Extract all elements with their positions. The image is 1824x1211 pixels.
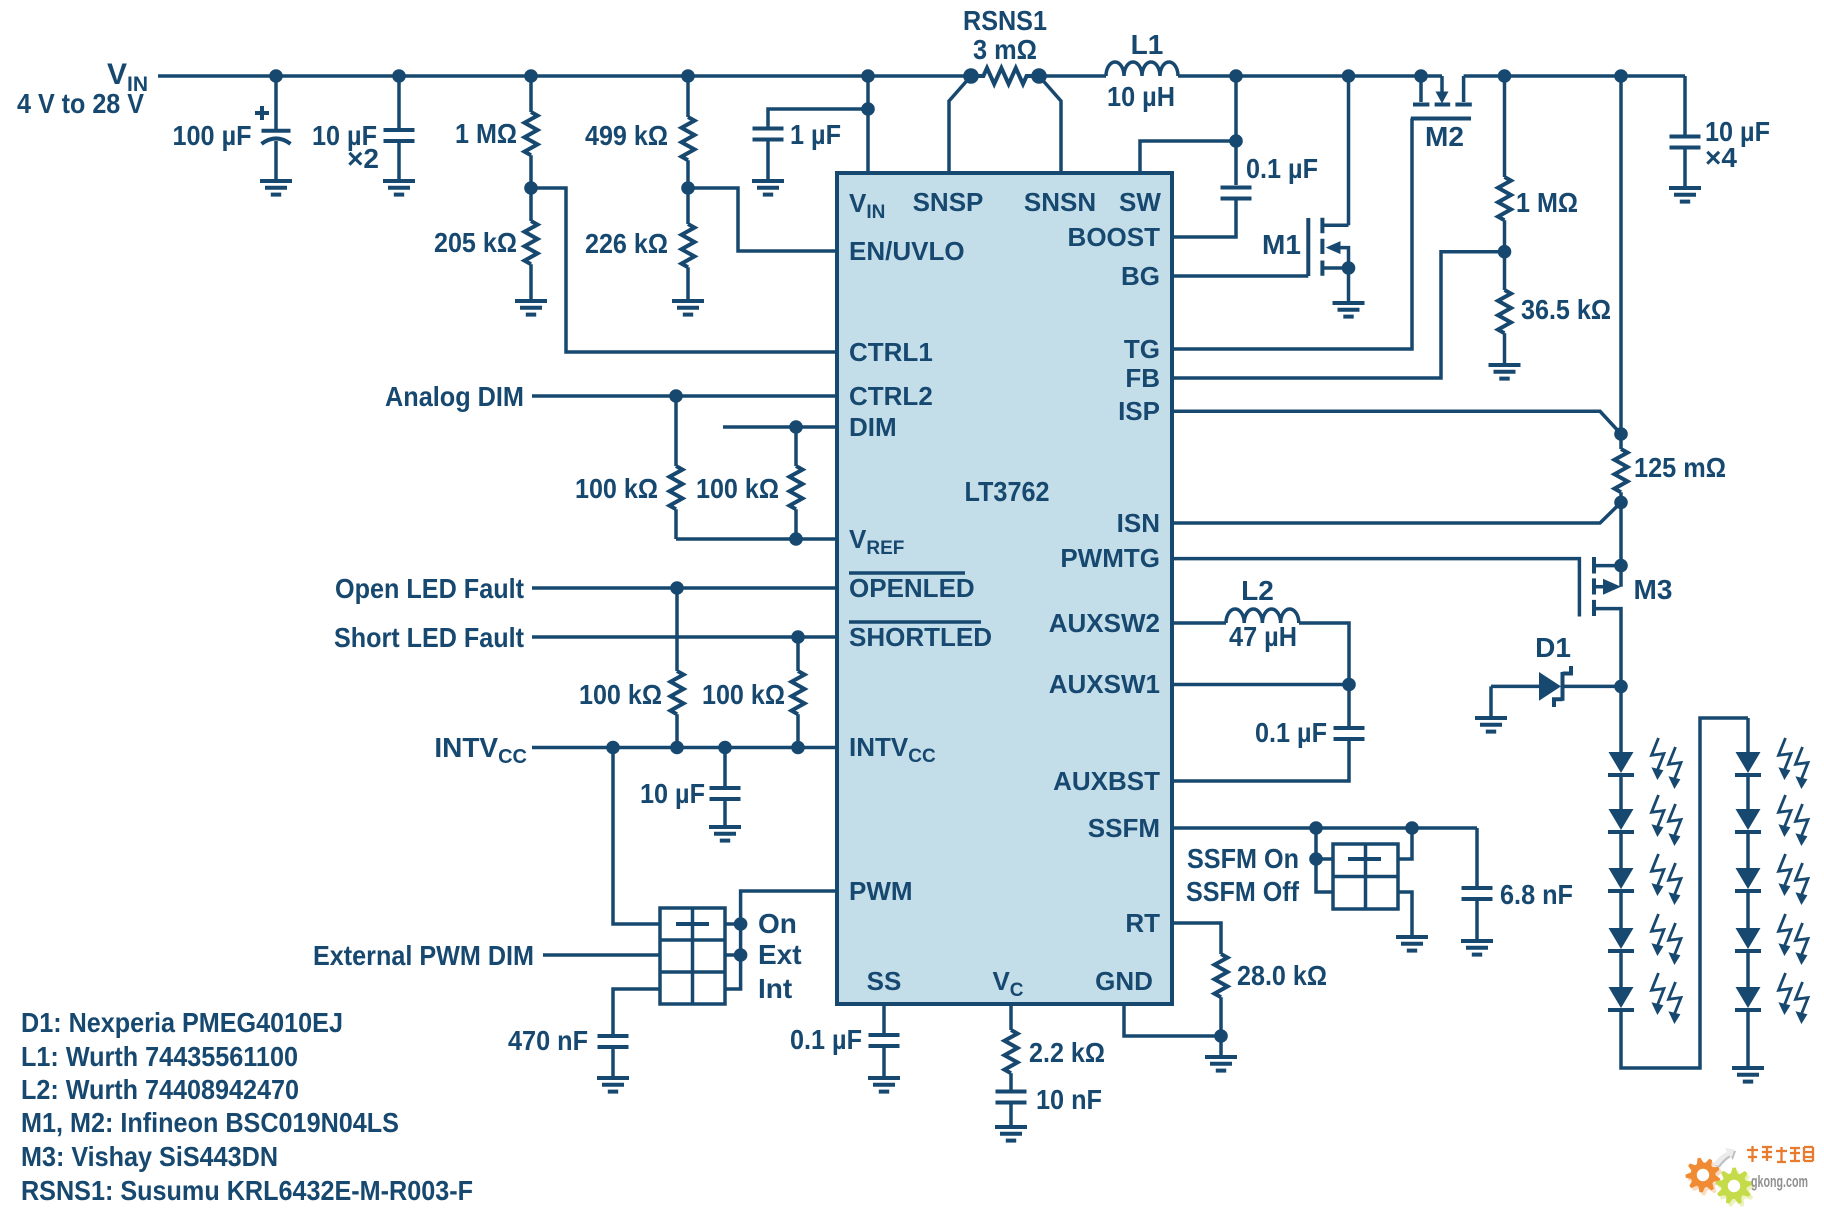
resistor R6 36.5 kOhm: [1498, 252, 1611, 365]
inductor L1 10 uH: [1106, 62, 1178, 76]
svg-text:100 µF: 100 µF: [173, 120, 252, 151]
svg-text:CTRL2: CTRL2: [849, 381, 933, 411]
svg-text:Short LED Fault: Short LED Fault: [334, 622, 524, 653]
wire ISP line: [1172, 411, 1621, 434]
node M1 source junction: [1342, 261, 1356, 275]
svg-text:226 kΩ: 226 kΩ: [585, 228, 668, 259]
wire GND pin path: [1124, 1004, 1221, 1036]
ground for C5: [1669, 188, 1701, 202]
capacitor C5 10uF x4 output: [1670, 76, 1771, 188]
resistor R4 226 kOhm: [585, 188, 695, 301]
capacitor C7 470 nF: [508, 1025, 629, 1078]
svg-text:Int: Int: [758, 973, 792, 1004]
capacitor C4 0.1uF boost: [1172, 153, 1318, 237]
resistor R8 100 kOhm upper right: [696, 427, 803, 539]
wire VIN riser to IC pin: [866, 76, 870, 173]
resistor R12 28.0 kOhm RT: [1215, 954, 1328, 1057]
ground for C2: [383, 181, 415, 195]
node M2 source rail junction: [1414, 69, 1428, 83]
watermark logo gkong: [1686, 1146, 1814, 1207]
wire SHORTLED: [532, 635, 837, 639]
svg-text:10 µH: 10 µH: [1107, 81, 1175, 112]
node INTVCC junction C6: [718, 741, 732, 755]
resistor R3 499 kOhm: [585, 76, 695, 188]
svg-text:RSNS1: Susumu KRL6432E-M-R003-: RSNS1: Susumu KRL6432E-M-R003-F: [21, 1175, 473, 1206]
node divider junction R1/R2: [524, 181, 538, 195]
svg-text:D1: Nexperia PMEG4010EJ: D1: Nexperia PMEG4010EJ: [21, 1007, 343, 1038]
svg-text:SNSP: SNSP: [913, 187, 984, 217]
wire output rail down right side: [1619, 76, 1623, 449]
IC U1 LT3762 body: [837, 173, 1172, 1004]
wire rail M2 to output cap: [1464, 74, 1685, 78]
node FB divider junction: [1498, 245, 1512, 259]
inductor L2 47 uH: [1226, 575, 1299, 652]
svg-text:100 kΩ: 100 kΩ: [579, 679, 662, 710]
wire External PWM DIM to switch: [543, 953, 660, 957]
svg-text:AUXSW1: AUXSW1: [1049, 669, 1160, 699]
svg-text:PWM: PWM: [849, 876, 913, 906]
ground for RT: [1205, 1057, 1237, 1071]
svg-text:External PWM DIM: External PWM DIM: [313, 940, 534, 971]
svg-text:M3: Vishay SiS443DN: M3: Vishay SiS443DN: [21, 1141, 278, 1172]
svg-text:L1: Wurth 74435561100: L1: Wurth 74435561100: [21, 1041, 298, 1072]
wire PWM pin to switch common: [725, 891, 837, 989]
svg-text:RSNS1: RSNS1: [963, 5, 1047, 36]
wire switch Int row to 470nF: [613, 989, 660, 1036]
node RT GND junction: [1214, 1029, 1228, 1043]
node SHORTLED junction: [791, 630, 805, 644]
svg-text:10 nF: 10 nF: [1036, 1084, 1102, 1115]
svg-text:6.8 nF: 6.8 nF: [1500, 879, 1573, 910]
node RSNS1 right terminal: [1031, 68, 1047, 84]
wire DIM stub: [723, 425, 837, 429]
svg-text:Ext: Ext: [758, 939, 802, 970]
transistor M1 NMOS: [1262, 76, 1348, 276]
node VIN rail junction C2: [392, 69, 406, 83]
svg-text:100 kΩ: 100 kΩ: [575, 473, 658, 504]
node M1 drain rail junction: [1342, 69, 1356, 83]
ground for C6: [709, 827, 741, 841]
node AUXSW1 junction: [1342, 678, 1356, 692]
svg-text:47 µH: 47 µH: [1229, 621, 1297, 652]
wire SSFM line: [1172, 826, 1477, 830]
wire VIN top rail left section: [158, 74, 971, 78]
pin label OPENLED with overline: [849, 573, 975, 603]
ground for C11: [1461, 941, 1493, 955]
node DIM junction: [789, 420, 803, 434]
svg-text:36.5 kΩ: 36.5 kΩ: [1521, 294, 1611, 325]
svg-text:SW: SW: [1119, 187, 1161, 217]
svg-text:AUXBST: AUXBST: [1053, 766, 1160, 796]
node CTRL2 junction: [669, 389, 683, 403]
ground for C3: [752, 181, 784, 195]
svg-text:1 MΩ: 1 MΩ: [1516, 187, 1578, 218]
svg-text:AUXSW2: AUXSW2: [1049, 608, 1160, 638]
svg-text:10 µF: 10 µF: [640, 778, 705, 809]
resistor R2 205 kOhm: [434, 188, 538, 301]
wire AUXSW2 to L2: [1172, 621, 1226, 625]
wire CTRL1 from divider: [531, 188, 837, 352]
svg-text:28.0 kΩ: 28.0 kΩ: [1237, 960, 1327, 991]
node D1 cathode junction: [1614, 680, 1628, 694]
capacitor C9 10 nF: [996, 1084, 1103, 1127]
wire EN/UVLO from divider: [688, 188, 837, 251]
switch S1 PWM select box: [660, 908, 725, 1004]
wire OPENLED: [532, 586, 837, 590]
capacitor C1 100uF polarized: [173, 76, 291, 181]
diode D1 schottky: [1491, 632, 1621, 718]
resistor R7 100 kOhm upper left: [575, 396, 683, 539]
svg-text:100 kΩ: 100 kΩ: [696, 473, 779, 504]
wire TG gate line M2: [1172, 119, 1412, 350]
node INTVCC junction R10: [791, 741, 805, 755]
LED string 2: [1735, 718, 1808, 1068]
svg-text:0.1 µF: 0.1 µF: [1246, 153, 1318, 184]
node VREF junction: [789, 532, 803, 546]
wire VREF line: [676, 537, 837, 541]
node VIN rail junction IC VIN: [861, 69, 875, 83]
resistor R5 1 MOhm feedback top: [1498, 76, 1578, 252]
svg-text:PWMTG: PWMTG: [1060, 543, 1160, 573]
svg-text:SNSN: SNSN: [1024, 187, 1096, 217]
svg-text:D1: D1: [1535, 632, 1571, 663]
svg-text:L1: L1: [1131, 29, 1164, 60]
svg-text:499 kΩ: 499 kΩ: [585, 120, 668, 151]
capacitor C3 1uF: [753, 109, 869, 181]
svg-text:LT3762: LT3762: [965, 476, 1050, 507]
node ISN junction: [1614, 496, 1628, 510]
ground for R6: [1489, 365, 1521, 379]
capacitor C8 0.1uF SS: [790, 1004, 900, 1078]
svg-text:SSFM On: SSFM On: [1187, 843, 1299, 874]
node VIN rail junction R1: [524, 69, 538, 83]
capacitor C11 6.8 nF: [1462, 828, 1574, 941]
ground for C9: [995, 1127, 1027, 1141]
svg-text:OPENLED: OPENLED: [849, 573, 975, 603]
node SSFM junction right: [1405, 821, 1419, 835]
svg-text:SS: SS: [867, 966, 902, 996]
wire rail L1 to M2: [1178, 74, 1442, 78]
wire L2 to AUXSW1 node: [1299, 623, 1349, 728]
svg-text:L2: L2: [1241, 575, 1274, 606]
transistor M3 NMOS dimming: [1594, 557, 1672, 686]
node VIN rail junction C1: [269, 69, 283, 83]
capacitor C2 10uF x2: [312, 76, 415, 181]
svg-text:1 µF: 1 µF: [790, 119, 841, 150]
wire SNSP kelvin: [949, 76, 971, 173]
node INTVCC junction R9: [670, 741, 684, 755]
resistor R13 125 mOhm sense: [1615, 449, 1727, 566]
svg-text:125 mΩ: 125 mΩ: [1634, 452, 1726, 483]
pin label SHORTLED with overline: [849, 622, 992, 652]
node switch On contact: [734, 917, 748, 931]
svg-text:BG: BG: [1121, 261, 1160, 291]
svg-text:On: On: [758, 908, 797, 939]
svg-text:Open LED Fault: Open LED Fault: [335, 573, 524, 604]
ground for C8: [868, 1078, 900, 1092]
svg-text:BOOST: BOOST: [1068, 222, 1161, 252]
wire SW to IC pin: [1140, 141, 1236, 173]
wire BG to M1 gate: [1172, 274, 1308, 278]
svg-text:SSFM: SSFM: [1088, 813, 1160, 843]
node VIN rail junction R3: [681, 69, 695, 83]
ground for C7: [597, 1078, 629, 1092]
ground for D1 anode: [1475, 718, 1507, 732]
node OPENLED junction: [670, 581, 684, 595]
wire M1 source to ground: [1347, 268, 1351, 303]
wire PWMTG to M3 gate: [1172, 559, 1579, 617]
LED string 1: [1608, 686, 1748, 1068]
node R5 rail junction: [1498, 69, 1512, 83]
svg-text:TG: TG: [1124, 334, 1160, 364]
svg-text:3 mΩ: 3 mΩ: [973, 34, 1037, 65]
node 1uF tap on VIN riser: [861, 102, 875, 116]
ground for R2: [515, 301, 547, 315]
svg-text:205 kΩ: 205 kΩ: [434, 227, 517, 258]
svg-text:CTRL1: CTRL1: [849, 337, 933, 367]
capacitor C10 0.1uF aux boost: [1172, 717, 1365, 781]
svg-text:M3: M3: [1634, 574, 1673, 605]
wire AUXSW1: [1172, 683, 1349, 687]
svg-text:ISN: ISN: [1117, 508, 1160, 538]
svg-text:Analog DIM: Analog DIM: [385, 381, 524, 412]
node divider junction R3/R4: [681, 181, 695, 195]
wire ISN line: [1172, 502, 1621, 523]
node INTVCC junction switch: [606, 741, 620, 755]
ground for M1: [1333, 303, 1365, 317]
resistor RSNS1 3 mOhm: [971, 68, 1039, 84]
svg-text:1 MΩ: 1 MΩ: [455, 118, 517, 149]
resistor R10 100 kOhm lower right: [702, 637, 805, 748]
svg-text:0.1 µF: 0.1 µF: [1255, 717, 1327, 748]
resistor R1 1 MOhm upper divider: [455, 76, 538, 188]
svg-text:M1: M1: [1262, 229, 1301, 260]
node ISP junction: [1614, 427, 1628, 441]
svg-text:100 kΩ: 100 kΩ: [702, 679, 785, 710]
svg-text:4 V to 28 V: 4 V to 28 V: [17, 88, 144, 119]
svg-text:M1, M2: Infineon BSC019N04LS: M1, M2: Infineon BSC019N04LS: [21, 1107, 399, 1138]
wire FB to IC: [1172, 252, 1505, 378]
resistor R11 2.2 kOhm VC: [1005, 1004, 1106, 1092]
svg-text:ISP: ISP: [1118, 396, 1160, 426]
switch S2 SSFM select box: [1333, 844, 1398, 909]
wire INTVCC to PWM switch: [613, 748, 660, 925]
svg-text:RT: RT: [1125, 908, 1160, 938]
svg-text:M2: M2: [1425, 121, 1464, 152]
ground for LED string 2: [1732, 1068, 1764, 1082]
wire INTVCC rail: [532, 746, 837, 750]
wire SSFM switch right connections: [1398, 828, 1412, 859]
svg-text:FB: FB: [1125, 363, 1160, 393]
resistor R9 100 kOhm lower left: [579, 588, 684, 748]
wire SSFM switch left connections: [1316, 828, 1333, 892]
svg-text:×2: ×2: [347, 143, 379, 174]
node SW junction: [1229, 134, 1243, 148]
ground for SSFM switch: [1396, 937, 1428, 951]
ground for C1: [260, 181, 292, 195]
node SSFM junction left: [1309, 821, 1323, 835]
wire SW node riser: [1234, 76, 1238, 185]
svg-text:2.2 kΩ: 2.2 kΩ: [1029, 1037, 1105, 1068]
wire CTRL2 Analog DIM: [532, 394, 837, 398]
svg-text:470 nF: 470 nF: [508, 1025, 588, 1056]
svg-text:L2: Wurth 74408942470: L2: Wurth 74408942470: [21, 1074, 299, 1105]
svg-text:EN/UVLO: EN/UVLO: [849, 236, 965, 266]
svg-text:SHORTLED: SHORTLED: [849, 622, 992, 652]
wire rail between RSNS1 and L1: [1039, 74, 1106, 78]
svg-text:×4: ×4: [1705, 142, 1737, 173]
svg-text:GND: GND: [1095, 966, 1153, 996]
svg-text:gkong.com: gkong.com: [1751, 1172, 1808, 1191]
node RSNS1 left terminal: [963, 68, 979, 84]
node M3 drain junction: [1614, 559, 1628, 573]
node switch Ext contact: [734, 948, 748, 962]
wire SNSN kelvin: [1039, 76, 1061, 173]
notes bill of materials: [21, 1007, 473, 1206]
svg-text:0.1 µF: 0.1 µF: [790, 1024, 862, 1055]
wire RT pin path: [1172, 923, 1221, 954]
node output rail junction: [1614, 69, 1628, 83]
node SW rail junction: [1229, 69, 1243, 83]
transistor M2 NMOS high side: [1411, 76, 1472, 152]
svg-text:DIM: DIM: [849, 412, 897, 442]
svg-text:SSFM Off: SSFM Off: [1186, 876, 1300, 907]
ground for R4: [672, 301, 704, 315]
capacitor C6 10uF INTVCC: [640, 748, 741, 828]
